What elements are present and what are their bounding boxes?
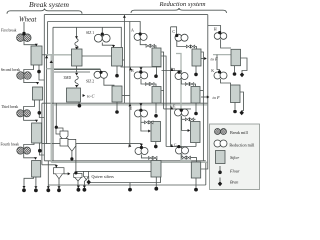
svg-text:Break mill: Break mill xyxy=(230,130,249,135)
svg-text:Flour: Flour xyxy=(229,169,240,174)
svg-text:to F: to F xyxy=(211,57,219,62)
svg-text:E: E xyxy=(130,106,133,111)
svg-text:Sifter: Sifter xyxy=(230,155,239,160)
svg-text:SIZ 1: SIZ 1 xyxy=(86,31,94,35)
svg-text:Bran: Bran xyxy=(230,179,238,184)
svg-text:B: B xyxy=(131,68,134,73)
svg-text:Quiver sifters: Quiver sifters xyxy=(92,174,115,179)
svg-text:D: D xyxy=(172,67,175,72)
svg-text:Second break: Second break xyxy=(1,68,21,72)
svg-text:A: A xyxy=(131,28,134,33)
svg-text:SIZ 2: SIZ 2 xyxy=(86,79,94,83)
svg-text:H: H xyxy=(214,26,217,31)
svg-text:Third break: Third break xyxy=(1,105,18,109)
svg-text:Fourth break: Fourth break xyxy=(1,143,20,147)
svg-text:Reduction system: Reduction system xyxy=(159,1,206,8)
svg-text:C: C xyxy=(172,29,175,34)
svg-text:G: G xyxy=(174,142,177,147)
svg-text:to C: to C xyxy=(87,94,95,99)
svg-text:K: K xyxy=(211,68,214,73)
svg-text:Wheat: Wheat xyxy=(19,17,37,24)
svg-text:3MD: 3MD xyxy=(64,76,72,80)
svg-text:Break system: Break system xyxy=(29,0,70,9)
svg-text:to F: to F xyxy=(213,95,221,100)
svg-text:Reduction mill: Reduction mill xyxy=(229,143,255,148)
svg-text:First break: First break xyxy=(1,28,17,32)
